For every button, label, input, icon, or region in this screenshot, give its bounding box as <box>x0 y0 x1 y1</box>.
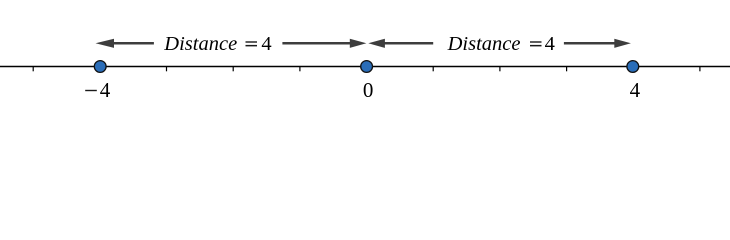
svg-text:4: 4 <box>630 78 641 102</box>
svg-text:4: 4 <box>261 33 271 55</box>
right double arrow shaft (left segment) <box>384 42 434 45</box>
point at 4 <box>627 61 639 73</box>
left double arrow shaft (right segment) <box>282 42 351 45</box>
point at 0 <box>361 61 373 73</box>
right double arrow right head <box>614 39 631 48</box>
tick 4 <box>632 67 634 72</box>
tick -3 <box>166 67 168 72</box>
tick -1 <box>299 67 301 72</box>
tick 0 <box>366 67 368 72</box>
svg-text:Distance: Distance <box>163 33 237 55</box>
tick -2 <box>232 67 234 72</box>
svg-text:4: 4 <box>545 33 555 55</box>
svg-text:4: 4 <box>100 78 111 102</box>
right double arrow shaft (right segment) <box>564 42 616 45</box>
tick 5 <box>699 67 701 72</box>
tick -5 <box>32 67 34 72</box>
left arrow label: Distance = 4 <box>163 33 271 55</box>
point at -4 <box>94 61 106 73</box>
left double arrow right head <box>350 39 367 48</box>
axis label -4 <box>85 78 111 102</box>
right arrow label: Distance = 4 <box>447 33 555 55</box>
right double arrow left head <box>368 39 385 48</box>
svg-text:Distance: Distance <box>447 33 521 55</box>
tick 1 <box>432 67 434 72</box>
tick -4 <box>99 67 101 72</box>
svg-text:0: 0 <box>363 78 374 102</box>
left double arrow shaft (left segment) <box>113 42 154 45</box>
number line axis <box>0 66 730 68</box>
tick 3 <box>566 67 568 72</box>
left double arrow left head <box>96 39 115 48</box>
tick 2 <box>499 67 501 72</box>
